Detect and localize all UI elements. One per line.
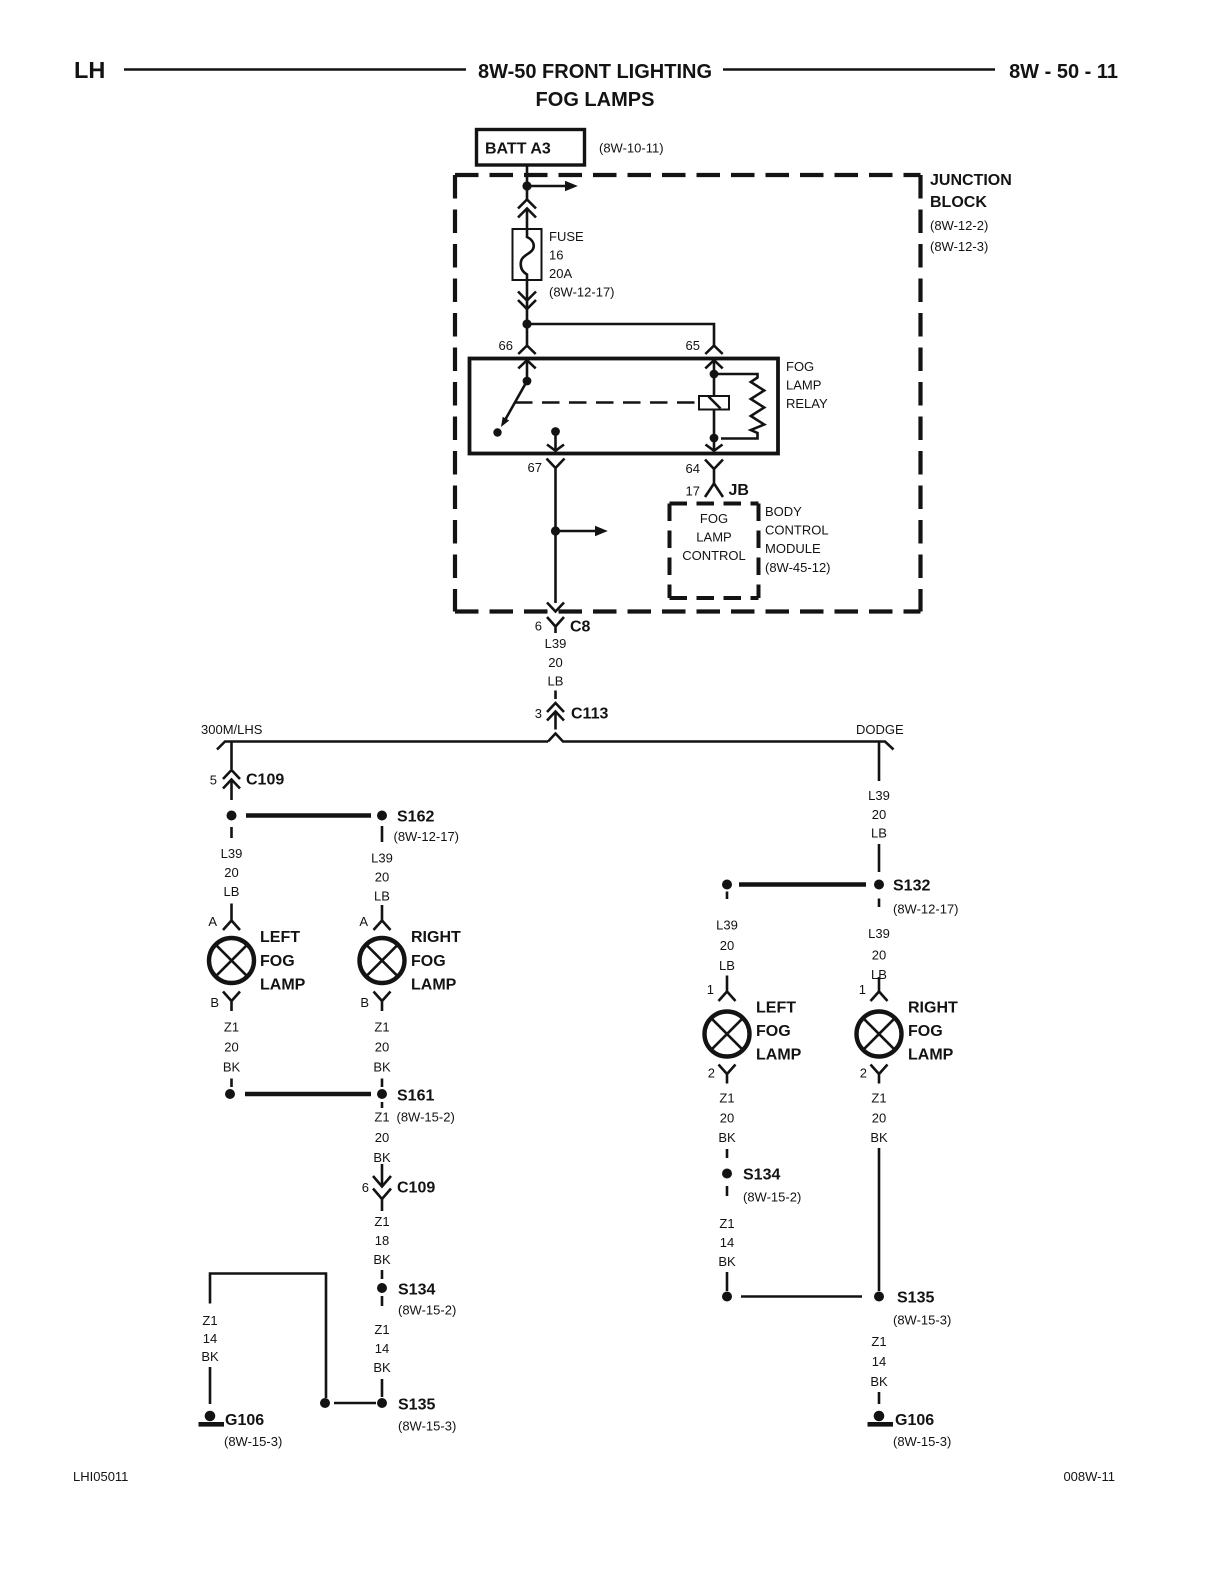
svg-text:DODGE: DODGE <box>856 722 904 737</box>
svg-text:20: 20 <box>375 1040 389 1055</box>
junction block name <box>930 172 1012 254</box>
wire stub below S134 <box>381 1296 384 1306</box>
reference (8W-10-11) <box>599 141 664 156</box>
pin 64 label <box>686 461 700 476</box>
reference (8W-15-3) <box>398 1419 456 1434</box>
pin B label (right lamp) <box>360 995 369 1010</box>
wire label Z1 20 BK (left lamp) <box>718 1091 736 1159</box>
pin 1 connector (left lamp) <box>719 976 736 1002</box>
left fog lamp (DODGE) <box>705 1012 750 1057</box>
svg-text:B: B <box>360 995 369 1010</box>
svg-text:Z1: Z1 <box>719 1216 734 1231</box>
svg-text:G106: G106 <box>225 1412 264 1429</box>
relay stationary contact node <box>493 428 501 436</box>
right fog lamp (DODGE) <box>857 1012 902 1057</box>
wire: across to S135 <box>741 1295 862 1298</box>
svg-text:20: 20 <box>224 1040 238 1055</box>
svg-text:BODY: BODY <box>765 504 802 519</box>
svg-text:(8W-12-3): (8W-12-3) <box>930 239 988 254</box>
svg-text:008W-11: 008W-11 <box>1063 1469 1115 1484</box>
svg-text:18: 18 <box>375 1233 389 1248</box>
svg-text:1: 1 <box>859 982 866 997</box>
svg-text:2: 2 <box>860 1066 867 1081</box>
svg-text:Z1: Z1 <box>871 1334 886 1349</box>
svg-text:A: A <box>208 914 217 929</box>
fuse 16 20A <box>513 229 542 280</box>
pin 66 connector chevrons <box>518 346 535 381</box>
pin 66 label <box>499 338 513 353</box>
pin 64 connector Y <box>705 460 723 484</box>
svg-text:14: 14 <box>872 1354 886 1369</box>
wire label Z1 14 BK <box>718 1216 736 1269</box>
relay name <box>786 359 828 411</box>
svg-text:LAMP: LAMP <box>756 1047 802 1064</box>
splice S134 (right section) <box>722 1167 780 1184</box>
svg-text:14: 14 <box>720 1235 734 1250</box>
svg-text:(8W-12-17): (8W-12-17) <box>549 285 615 300</box>
svg-text:FOG LAMPS: FOG LAMPS <box>536 89 655 111</box>
node: splice to relay pins <box>522 319 531 328</box>
connector name C8 <box>570 619 591 636</box>
ground G106 (right) <box>868 1411 935 1429</box>
svg-text:6: 6 <box>362 1180 369 1195</box>
BCM name <box>765 504 831 575</box>
wire: down from bus <box>230 742 233 770</box>
svg-text:LAMP: LAMP <box>908 1047 954 1064</box>
svg-text:BK: BK <box>718 1130 736 1145</box>
wire: feed arrow to other circuits <box>556 526 608 537</box>
svg-text:BK: BK <box>870 1374 888 1389</box>
wire: to S135 <box>381 1379 384 1397</box>
footer: drawing number <box>73 1469 128 1484</box>
node: splice feed arrow <box>551 526 560 535</box>
wire: contact down to pin 67 with arrowhead <box>547 432 564 451</box>
wire: to S132 <box>878 844 881 872</box>
svg-text:S162: S162 <box>397 809 434 826</box>
connector C109 double chevron <box>223 770 240 800</box>
wire: across to pin 65 <box>527 324 714 346</box>
svg-text:20: 20 <box>548 655 562 670</box>
svg-text:LB: LB <box>224 884 240 899</box>
svg-text:(8W-45-12): (8W-45-12) <box>765 560 831 575</box>
bus bar split with branch bump <box>217 734 894 750</box>
wire label L39 20 LB <box>868 788 890 841</box>
svg-text:LAMP: LAMP <box>696 530 731 545</box>
svg-text:Z1: Z1 <box>871 1091 886 1106</box>
pin 67 label <box>528 460 542 475</box>
splice S135 (left section) <box>377 1397 435 1414</box>
svg-text:6: 6 <box>535 619 542 634</box>
svg-text:Z1: Z1 <box>374 1110 389 1125</box>
BCM function: fog lamp control <box>682 511 746 563</box>
wire label Z1 14 BK <box>373 1322 391 1375</box>
pin 1 label (right lamp) <box>859 982 866 997</box>
svg-text:(8W-12-17): (8W-12-17) <box>394 829 460 844</box>
wire stub below S161 <box>381 1102 384 1108</box>
fog lamp relay box <box>470 359 779 454</box>
svg-text:Z1: Z1 <box>374 1322 389 1337</box>
wire label L39 20 LB (left lamp) <box>716 918 738 974</box>
wire: long run to S135 <box>878 1148 881 1291</box>
wire: down to S135 row <box>726 1272 729 1291</box>
reference (8W-15-3) <box>893 1434 951 1449</box>
svg-text:C113: C113 <box>571 706 608 723</box>
splice S132 <box>874 878 930 895</box>
relay coil top node <box>710 370 719 379</box>
pin 2 connector (right lamp) <box>871 1065 888 1084</box>
wire: stub above C113 <box>554 691 557 700</box>
svg-text:FOG: FOG <box>908 1023 943 1040</box>
battery feed box BATT A3 <box>477 130 585 166</box>
connector name JB <box>729 482 749 499</box>
svg-text:14: 14 <box>203 1331 217 1346</box>
splice S162 <box>377 809 434 826</box>
svg-text:LB: LB <box>374 889 390 904</box>
svg-text:FOG: FOG <box>756 1023 791 1040</box>
wire label Z1 (8W-15-2) 20 BK <box>373 1110 454 1166</box>
wire: fuse to splice <box>526 280 529 324</box>
branch label DODGE <box>856 722 904 737</box>
header: title FRONT LIGHTING <box>478 61 712 111</box>
header: left rule <box>124 68 466 71</box>
node: splice under BATT A3 <box>522 181 531 190</box>
wire: coil vertical <box>713 374 716 438</box>
svg-text:300M/LHS: 300M/LHS <box>201 722 263 737</box>
svg-text:LEFT: LEFT <box>260 929 300 946</box>
pin 5 label <box>210 773 217 788</box>
svg-text:(8W-15-3): (8W-15-3) <box>893 1434 951 1449</box>
wire arrowhead at block boundary <box>547 603 564 612</box>
connector symbol (double chevron down) below fuse <box>518 292 536 310</box>
svg-text:L39: L39 <box>545 636 567 651</box>
svg-text:CONTROL: CONTROL <box>765 523 829 538</box>
relay actuation dashed link <box>515 401 698 404</box>
svg-text:CONTROL: CONTROL <box>682 548 746 563</box>
svg-text:67: 67 <box>528 460 542 475</box>
bus: S132 to left lamp feed <box>739 882 866 887</box>
svg-text:(8W-15-3): (8W-15-3) <box>893 1313 951 1328</box>
header: right rule <box>723 68 995 71</box>
svg-text:BLOCK: BLOCK <box>930 194 987 211</box>
pin 6 label <box>362 1180 369 1195</box>
relay coil box <box>699 396 729 410</box>
svg-text:S135: S135 <box>897 1290 934 1307</box>
svg-text:L39: L39 <box>868 926 890 941</box>
relay coil suppression resistor <box>714 374 764 439</box>
wire label L39 20 LB (right lamp) <box>868 926 890 982</box>
wire label Z1 14 BK (to ground) <box>870 1334 888 1389</box>
svg-text:3: 3 <box>535 706 542 721</box>
pin B connector (right lamp) <box>374 992 391 1012</box>
svg-text:L39: L39 <box>716 918 738 933</box>
svg-text:C109: C109 <box>397 1180 435 1197</box>
splice S135 <box>874 1290 934 1307</box>
svg-text:2: 2 <box>708 1066 715 1081</box>
pin A connector (left lamp) <box>223 904 240 931</box>
pin 2 label (right lamp) <box>860 1066 867 1081</box>
connector name C109 <box>246 772 284 789</box>
svg-text:L39: L39 <box>371 851 393 866</box>
svg-text:8W - 50 - 11: 8W - 50 - 11 <box>1009 61 1118 83</box>
pin 17 label <box>686 484 700 499</box>
header: sheet code LH <box>74 57 105 83</box>
svg-text:LAMP: LAMP <box>786 378 821 393</box>
svg-text:BK: BK <box>373 1252 391 1267</box>
wire: down from bus <box>878 742 881 782</box>
relay output contact node (pin 67) <box>551 427 560 436</box>
svg-text:LHI05011: LHI05011 <box>73 1469 128 1484</box>
wire stubs below splices <box>727 892 879 908</box>
svg-text:(8W-15-2): (8W-15-2) <box>398 1303 456 1318</box>
svg-text:S134: S134 <box>743 1167 780 1184</box>
svg-text:Z1: Z1 <box>224 1020 239 1035</box>
wire: down to G106 <box>209 1367 212 1404</box>
left fog lamp (300M) <box>209 938 254 983</box>
svg-text:Z1: Z1 <box>374 1020 389 1035</box>
pin 65 connector chevrons <box>705 346 722 374</box>
svg-text:20: 20 <box>224 865 238 880</box>
svg-text:(8W-12-2): (8W-12-2) <box>930 218 988 233</box>
right fog lamp (300M) <box>360 938 405 983</box>
svg-text:(8W-15-3): (8W-15-3) <box>398 1419 456 1434</box>
svg-text:FOG: FOG <box>700 511 728 526</box>
bus: to S161 <box>245 1092 371 1097</box>
svg-text:S161: S161 <box>397 1088 434 1105</box>
connector C109 double chevron down <box>373 1176 391 1211</box>
wire: down to G106 <box>878 1392 881 1404</box>
wire: ground routing loop <box>210 1274 326 1399</box>
svg-text:FUSE: FUSE <box>549 229 584 244</box>
svg-text:LB: LB <box>871 826 887 841</box>
wire: down to pin 66 <box>526 324 529 346</box>
node: left lamp feed splice <box>722 880 732 890</box>
svg-text:S135: S135 <box>398 1397 435 1414</box>
wire: coil to pin 64 with arrowhead <box>706 438 723 451</box>
svg-text:20: 20 <box>375 1130 389 1145</box>
pin 6 label <box>535 619 542 634</box>
svg-text:Z1: Z1 <box>374 1214 389 1229</box>
relay coil bottom node <box>710 434 719 443</box>
connector symbol (double chevron) above fuse <box>518 200 536 230</box>
pin 67 connector Y <box>547 459 565 479</box>
wire label Z1 20 BK (left) <box>223 1020 241 1088</box>
svg-text:A: A <box>359 914 368 929</box>
connector name C109 <box>397 1180 435 1197</box>
svg-text:S134: S134 <box>398 1282 435 1299</box>
reference (8W-15-3) <box>224 1434 282 1449</box>
pin B connector (left lamp) <box>223 992 240 1012</box>
svg-text:C109: C109 <box>246 772 284 789</box>
wire into C109 pin 6 <box>381 1164 384 1187</box>
svg-text:20: 20 <box>720 1111 734 1126</box>
svg-text:20: 20 <box>872 948 886 963</box>
node: S135 row left splice <box>722 1292 732 1302</box>
svg-text:BK: BK <box>373 1360 391 1375</box>
svg-text:65: 65 <box>686 338 700 353</box>
svg-text:MODULE: MODULE <box>765 541 821 556</box>
relay switch arm with arrowhead <box>501 381 527 427</box>
svg-text:1: 1 <box>707 982 714 997</box>
svg-text:BK: BK <box>223 1060 241 1075</box>
svg-text:C8: C8 <box>570 619 591 636</box>
svg-text:Z1: Z1 <box>719 1091 734 1106</box>
right fog lamp name <box>411 929 461 994</box>
svg-text:JUNCTION: JUNCTION <box>930 172 1012 189</box>
left column wire label L39 20 LB <box>221 827 243 899</box>
splice S161 <box>377 1088 434 1105</box>
S162 column wire label L39 20 LB <box>371 851 393 904</box>
svg-text:(8W-15-3): (8W-15-3) <box>224 1434 282 1449</box>
svg-text:LB: LB <box>548 674 564 689</box>
svg-text:20: 20 <box>872 807 886 822</box>
reference (8W-15-2) <box>398 1303 456 1318</box>
svg-text:RIGHT: RIGHT <box>908 1000 958 1017</box>
body control module dashed box <box>670 504 759 599</box>
pin A connector (right lamp) <box>374 905 391 930</box>
header: page number 8W - 50 - 11 <box>1009 61 1118 83</box>
right fog lamp name <box>908 1000 958 1064</box>
reference (8W-12-17) <box>893 902 959 917</box>
wire: BATT A3 down into junction block <box>526 165 529 200</box>
wire: S135 to ground run <box>334 1402 376 1405</box>
junction block dashed boundary <box>455 175 921 612</box>
pin A label (right lamp) <box>359 914 368 929</box>
svg-text:8W-50 FRONT LIGHTING: 8W-50 FRONT LIGHTING <box>478 61 712 83</box>
svg-text:FOG: FOG <box>260 953 295 970</box>
svg-text:BK: BK <box>718 1254 736 1269</box>
svg-text:L39: L39 <box>221 846 243 861</box>
svg-text:FOG: FOG <box>411 953 446 970</box>
wire label Z1 14 BK (ground leg) <box>201 1313 219 1364</box>
reference (8W-15-3) <box>893 1313 951 1328</box>
svg-text:LEFT: LEFT <box>756 1000 796 1017</box>
pin 3 label <box>535 706 542 721</box>
relay movable contact node <box>523 377 532 386</box>
pin B label (left lamp) <box>210 995 219 1010</box>
svg-text:(8W-12-17): (8W-12-17) <box>893 902 959 917</box>
wire label Z1 20 BK (right) <box>373 1020 391 1088</box>
wire: feed arrow to other circuits <box>527 181 578 192</box>
node: splice at C109 output <box>227 811 237 821</box>
svg-text:LH: LH <box>74 57 105 83</box>
svg-text:BK: BK <box>870 1130 888 1145</box>
node: ground splice left <box>225 1089 235 1099</box>
svg-text:B: B <box>210 995 219 1010</box>
pin 65 label <box>686 338 700 353</box>
bus: splice to S162 <box>246 813 371 818</box>
svg-text:Z1: Z1 <box>202 1313 217 1328</box>
svg-text:14: 14 <box>375 1341 389 1356</box>
node: ground run corner <box>320 1398 330 1408</box>
pin A label (left lamp) <box>208 914 217 929</box>
svg-text:17: 17 <box>686 484 700 499</box>
svg-text:5: 5 <box>210 773 217 788</box>
svg-text:BK: BK <box>373 1060 391 1075</box>
pin 2 connector (left lamp) <box>719 1065 736 1084</box>
svg-text:20A: 20A <box>549 266 572 281</box>
svg-text:20: 20 <box>720 938 734 953</box>
svg-text:RELAY: RELAY <box>786 396 828 411</box>
wire label Z1 18 BK <box>373 1214 391 1279</box>
connector C8 pin Y <box>547 617 564 633</box>
left fog lamp name <box>260 929 306 994</box>
svg-text:LAMP: LAMP <box>411 977 457 994</box>
reference (8W-12-17) <box>394 829 460 844</box>
svg-text:20: 20 <box>872 1111 886 1126</box>
svg-text:LAMP: LAMP <box>260 977 306 994</box>
svg-text:16: 16 <box>549 248 563 263</box>
fuse labels <box>549 229 615 300</box>
svg-text:G106: G106 <box>895 1412 934 1429</box>
ground G106 (left) <box>199 1411 265 1429</box>
wire: pin 67 down and out of junction block <box>554 479 557 604</box>
svg-text:JB: JB <box>729 482 749 499</box>
svg-text:FOG: FOG <box>786 359 814 374</box>
pin 17 connector lambda <box>705 484 723 498</box>
svg-text:S132: S132 <box>893 878 930 895</box>
svg-text:BK: BK <box>201 1349 219 1364</box>
svg-text:L39: L39 <box>868 788 890 803</box>
svg-text:(8W-15-2): (8W-15-2) <box>743 1190 801 1205</box>
svg-text:66: 66 <box>499 338 513 353</box>
svg-text:64: 64 <box>686 461 700 476</box>
splice S134 (left section) <box>377 1282 435 1299</box>
svg-text:(8W-10-11): (8W-10-11) <box>599 141 664 156</box>
svg-text:BATT A3: BATT A3 <box>485 141 551 158</box>
branch label 300M/LHS <box>201 722 263 737</box>
pin 2 label (left lamp) <box>708 1066 715 1081</box>
connector C113 double chevron <box>547 703 564 730</box>
pin 1 label (left lamp) <box>707 982 714 997</box>
svg-text:(8W-15-2): (8W-15-2) <box>397 1110 455 1125</box>
wire stub below S134 <box>726 1186 729 1196</box>
footer: sheet number <box>1063 1469 1115 1484</box>
left fog lamp name <box>756 1000 802 1064</box>
reference (8W-15-2) <box>743 1190 801 1205</box>
svg-text:20: 20 <box>375 870 389 885</box>
svg-text:LB: LB <box>719 958 735 973</box>
svg-text:RIGHT: RIGHT <box>411 929 461 946</box>
svg-text:BK: BK <box>373 1150 391 1165</box>
wire label Z1 20 BK (right lamp) <box>870 1091 888 1146</box>
wire label L39 20 LB <box>545 636 567 689</box>
connector name C113 <box>571 706 608 723</box>
pin 1 connector (right lamp) <box>871 977 888 1001</box>
wire stub below S162 <box>381 826 384 842</box>
